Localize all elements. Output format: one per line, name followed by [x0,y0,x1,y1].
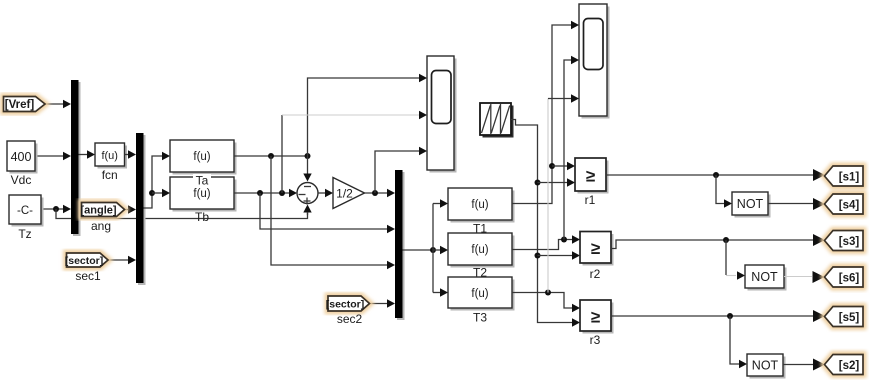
svg-text:[s1]: [s1] [839,172,860,184]
svg-text:≥: ≥ [591,308,600,327]
goto tag s5 [825,307,864,327]
wire Tb output to sum left input [234,189,297,197]
wire Tb branch up to Scope1 input2 [282,111,427,193]
svg-text:sec1: sec1 [75,269,101,283]
wire r1 branch down to NOT1 [716,175,732,208]
logic block NOT2 [745,265,787,291]
wire Tz to Mux1 with junction [41,205,71,213]
goto tag s4 [825,194,864,214]
svg-text:f(u): f(u) [101,150,118,162]
wire r3 output to goto s5 [611,310,825,322]
wire NOT1 output to goto s4 [768,198,825,210]
wire NOT3 output to goto s2 [783,359,825,371]
label Tb [195,210,209,224]
wire Mux3 output to T1 T2 T3 [403,199,449,296]
mux M3 [395,170,405,320]
svg-text:f(u): f(u) [193,151,210,163]
from tag Vref [4,97,46,112]
wire Mux1 to fcn [79,150,96,158]
svg-text:[s5]: [s5] [839,312,860,324]
logic block NOT3 [747,354,786,379]
wire gain output to Mux3 input1 [365,189,396,197]
svg-text:[angle]: [angle] [80,205,116,217]
svg-text:f(u): f(u) [193,188,210,200]
svg-text:≥: ≥ [586,167,595,186]
goto tag s6 [825,267,864,287]
wire r3 branch down to NOT3 [730,316,747,368]
svg-text:sec2: sec2 [337,312,363,326]
svg-text:[s3]: [s3] [839,236,860,248]
svg-text:≥: ≥ [591,239,600,258]
svg-text:-C-: -C- [17,205,33,217]
from tag sector (sec2) [326,296,370,326]
goto tag s3 [825,231,864,251]
wire fcn to Mux2 [125,150,137,158]
wire T1 output up to Scope2 input1 and r1 input1 [512,21,579,204]
scope Scope2 [579,4,610,119]
svg-text:f(u): f(u) [471,199,488,211]
fcn block T3 f(u) [448,277,515,325]
wire NOT2 output to goto s6 [784,271,825,283]
svg-text:T3: T3 [473,311,487,325]
svg-text:f(u): f(u) [471,244,488,256]
wire gain branch up to Scope1 input3 [375,147,427,193]
logic block NOT1 [732,192,771,218]
svg-text:NOT: NOT [737,197,764,211]
fcn block T2 f(u) [448,233,515,280]
sawtooth repeating sequence block [480,103,514,138]
svg-text:Ta: Ta [196,174,209,188]
wire Ta branch down to sum minus top input [303,156,311,182]
svg-text:f(u): f(u) [471,288,488,300]
wire sum output to gain [318,189,333,197]
svg-text:[sector]: [sector] [326,299,365,311]
svg-text:[s2]: [s2] [839,360,860,372]
fcn block T1 f(u) [448,188,515,236]
svg-text:ang: ang [91,219,111,233]
svg-text:r1: r1 [585,193,596,207]
svg-text:Tb: Tb [195,210,209,224]
mux M2 [136,133,146,285]
constant block 400 (Vdc) [7,141,38,187]
svg-text:r3: r3 [590,333,601,347]
wire Ta output [234,153,311,159]
svg-text:[sector]: [sector] [65,255,104,267]
fcn block f(u) [95,143,127,182]
svg-text:[s4]: [s4] [839,200,860,212]
mux M1 [71,80,81,236]
svg-text:1/2: 1/2 [336,187,353,201]
wire T2 output up to Scope2 input2 and r2 input1 [512,56,580,250]
wire r2 branch down to NOT2 [726,240,745,280]
sum block [297,183,318,205]
wire r2 output to goto s3 [611,234,825,249]
relational operator r1 [575,158,609,207]
wire Tz branch down to sum plus input [56,205,312,219]
wire r1 output to goto s1 [606,169,825,181]
gain block 1/2 [333,178,365,209]
svg-text:r2: r2 [590,267,601,281]
goto tag s2 [825,355,864,375]
wire Vdc to Mux1 [35,152,71,160]
wire T3 output to r3 input1 and faint branch to Scope2 input3 [512,94,580,312]
from tag sector (sec1) [65,253,108,283]
wire Ta branch to Mux3 input3 [271,156,395,269]
wire sum bottom stub [307,212,309,215]
wire Ta branch up to Scope1 input1 [308,74,428,156]
svg-text:Vdc: Vdc [11,173,32,187]
constant block -C- (Tz) [9,195,44,241]
fcn block Tb f(u) [170,177,237,212]
svg-text:[Vref]: [Vref] [5,99,35,111]
wire sector1 to Mux2 [108,256,136,264]
relational operator r2 [580,232,614,282]
svg-text:[s6]: [s6] [839,273,860,285]
wire Mux2 output to Ta and Tb inputs [144,152,171,208]
from tag angle [80,203,124,234]
relational operator r3 [580,300,614,347]
wire sector2 to Mux3 input4 [370,299,396,307]
svg-text:NOT: NOT [752,359,779,373]
scope Scope1 [427,56,457,173]
wire sawtooth output down the comparator column [511,120,580,327]
svg-text:fcn: fcn [102,168,118,182]
svg-text:NOT: NOT [751,270,778,284]
goto tag s1 [825,166,864,186]
wire Vref to Mux1 [45,100,71,108]
svg-text:400: 400 [11,150,32,164]
wire Tb branch to Mux3 input2 [260,193,395,233]
svg-text:Tz: Tz [18,227,31,241]
label Ta [193,174,211,188]
wire angle to Mux2 [125,205,137,213]
fcn block Ta f(u) [170,140,237,175]
